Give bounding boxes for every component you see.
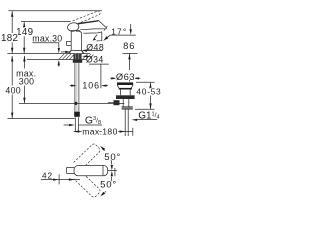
dimension 149 line — [23, 22, 25, 27]
deck hatching right — [83, 54, 94, 59]
17 degree handle extension dash — [104, 26, 108, 31]
svg-text:17°: 17° — [111, 27, 127, 37]
washbasin deck top line — [7, 53, 90, 55]
water flow arrow at aerator — [94, 35, 97, 39]
dimension 86 line — [129, 54, 131, 70]
lever handle blade (closed position) — [78, 21, 106, 30]
dimension 86 extension line — [123, 52, 138, 54]
detail: dimension 42 tick — [58, 174, 60, 184]
dimension 182 line — [11, 11, 13, 33]
dimension 400 reference line — [8, 118, 75, 120]
svg-text:50°: 50° — [104, 152, 121, 163]
svg-text:Ø34: Ø34 — [86, 55, 104, 65]
pop-up rod coupler knob — [114, 100, 120, 105]
svg-text:149: 149 — [16, 27, 33, 38]
dimension 182 extension line — [9, 10, 103, 12]
hose junction dot — [74, 102, 77, 105]
dimension max.300 reference line — [19, 102, 124, 104]
detail: lever end seam — [102, 166, 104, 176]
dimension Ø63 arrows — [110, 77, 112, 79]
dimension max.30 lower arrow — [58, 62, 60, 67]
faucet body outline — [71, 31, 80, 51]
detail: angle datum tick — [114, 168, 116, 176]
detail: dimension 42 line — [41, 179, 80, 181]
drain body — [121, 90, 131, 96]
svg-text:400: 400 — [5, 86, 21, 96]
drain pipe upper — [122, 99, 124, 107]
drain basin clamp bar — [119, 88, 132, 90]
svg-text:Ø48: Ø48 — [86, 42, 104, 52]
detail: lever rotated down 50 (dashed) — [74, 171, 102, 198]
dimension G3/8 leader — [79, 124, 102, 126]
dimension 40-53 line — [150, 83, 152, 88]
svg-text:182: 182 — [1, 33, 18, 44]
hose tail pipe — [74, 117, 76, 131]
svg-text:40-53: 40-53 — [136, 86, 161, 96]
pop-up rod knob at rear of body — [67, 41, 72, 45]
pop-up rod — [108, 102, 114, 104]
detail: upper 50 degree arc arrow — [110, 160, 113, 165]
svg-text:300: 300 — [19, 77, 35, 87]
G3/8 hose nut — [74, 112, 80, 117]
lever handle raised position (dashed) — [73, 11, 100, 24]
drain tail pipe — [124, 110, 126, 137]
svg-text:G3/8: G3/8 — [85, 116, 101, 127]
svg-text:42: 42 — [42, 171, 53, 180]
svg-text:max.180: max.180 — [82, 126, 117, 136]
svg-text:106: 106 — [82, 81, 100, 91]
svg-text:G11/4: G11/4 — [138, 111, 159, 122]
detail: lever body top view — [74, 165, 108, 175]
dimension 149 extension line — [21, 21, 71, 23]
dimension max.180 line — [74, 131, 133, 133]
dimension Ø34 leader — [89, 63, 109, 65]
drain pipe compression joint — [122, 106, 133, 107]
dimension 400 line — [11, 56, 13, 86]
drain flange sides — [117, 85, 133, 88]
svg-text:50°: 50° — [100, 179, 117, 190]
dimension 40-53 extension lines — [136, 81, 155, 83]
dimension 17 degree line — [111, 34, 136, 36]
mounting nut below deck — [73, 59, 82, 62]
dimension max.30 leader — [33, 43, 59, 48]
svg-text:Ø63: Ø63 — [116, 71, 135, 82]
svg-text:max.30: max.30 — [32, 34, 62, 44]
drain lock nut band — [116, 95, 135, 99]
detail: lever centerline extension — [103, 170, 117, 172]
detail: lever stem neck — [67, 168, 74, 174]
17 degree leader arrow — [106, 35, 110, 38]
threaded shank through deck — [73, 54, 81, 60]
flexible supply hoses — [74, 63, 76, 112]
dimension G1 1/4 leader — [137, 119, 157, 121]
dimension max.180 right tick — [132, 128, 134, 136]
svg-text:86: 86 — [123, 40, 135, 51]
washbasin deck bottom line — [27, 59, 86, 61]
faucet base plinth — [71, 50, 81, 52]
dimension Ø48 leader and arrows — [84, 50, 102, 52]
dimension max.300 line — [23, 56, 25, 69]
drain flange top bar — [117, 82, 133, 85]
dimension 106 arrows — [70, 85, 73, 87]
detail: lever rotated up 50 (dashed) — [74, 143, 102, 170]
lever handle oval (closed position) — [67, 22, 80, 32]
detail: lower 50 degree arc arrow — [110, 177, 113, 182]
dimension 106 extension line — [100, 64, 102, 88]
deck hatching left — [59, 54, 74, 59]
